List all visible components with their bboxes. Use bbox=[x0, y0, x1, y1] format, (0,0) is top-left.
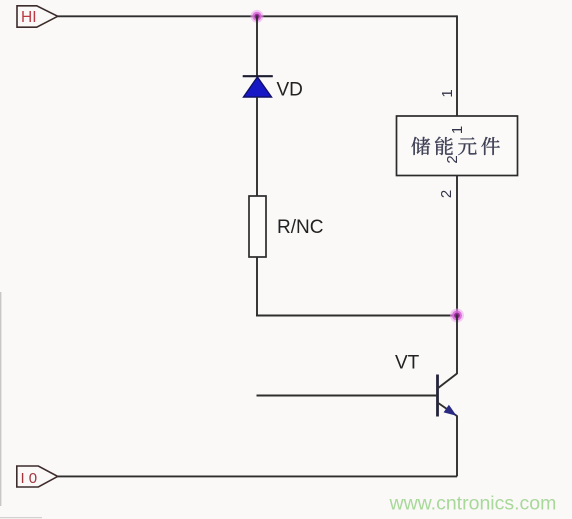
wire diode to resistor bbox=[256, 97, 258, 196]
diode VD bbox=[243, 76, 273, 97]
svg-text:1: 1 bbox=[439, 89, 456, 97]
label 储能元件 bbox=[411, 137, 499, 155]
svg-text:HI: HI bbox=[21, 9, 37, 26]
wire horizontal to junction bbox=[256, 315, 457, 317]
svg-text:I: I bbox=[21, 470, 25, 487]
svg-text:2: 2 bbox=[444, 155, 461, 163]
port HI bbox=[17, 6, 58, 27]
wire top rail bbox=[58, 15, 457, 17]
wire emitter down bbox=[456, 416, 458, 477]
wire bottom rail bbox=[58, 475, 457, 477]
svg-text:2: 2 bbox=[438, 190, 455, 198]
wire base bbox=[257, 395, 438, 397]
pin 2 wire / junction drop bbox=[456, 176, 458, 316]
svg-text:VT: VT bbox=[395, 353, 420, 374]
wire cathode drop bbox=[256, 16, 258, 76]
wire resistor down bbox=[256, 257, 258, 316]
wire junction to collector bbox=[456, 316, 458, 375]
pin 1 wire bbox=[456, 15, 458, 116]
svg-text:R/NC: R/NC bbox=[277, 217, 323, 238]
transistor VT bbox=[438, 374, 458, 417]
svg-text:VD: VD bbox=[277, 80, 303, 101]
svg-text:0: 0 bbox=[29, 470, 37, 487]
port I0 bbox=[17, 466, 58, 487]
left edge artifact line bbox=[0, 292, 2, 506]
resistor R/NC bbox=[249, 196, 266, 257]
node junction mid bbox=[450, 309, 464, 323]
svg-text:www.cntronics.com: www.cntronics.com bbox=[389, 493, 557, 515]
bottom edge artifact line bbox=[0, 517, 42, 519]
storage element box U1 bbox=[397, 116, 518, 176]
node junction top bbox=[251, 10, 264, 23]
svg-text:1: 1 bbox=[449, 126, 466, 134]
